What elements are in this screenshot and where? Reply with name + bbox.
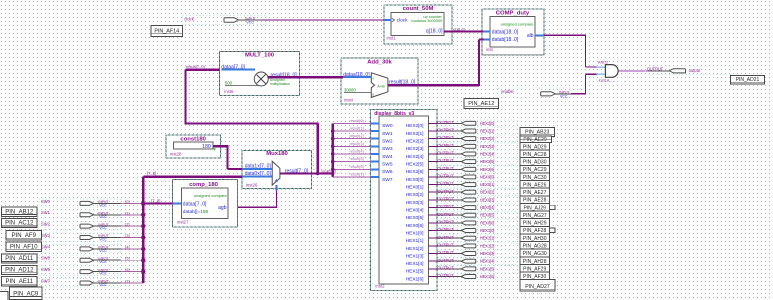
input pin SW4 bbox=[39, 244, 121, 253]
svg-text:VCC: VCC bbox=[99, 260, 107, 264]
svg-text:OUTPUT: OUTPUT bbox=[437, 158, 454, 163]
pin assignment PIN_AE12 bbox=[464, 99, 499, 109]
svg-text:result[5]: result[5] bbox=[350, 156, 364, 161]
svg-text:OUTPUT: OUTPUT bbox=[437, 273, 454, 278]
output pin HEX0[3] bbox=[428, 197, 517, 204]
svg-text:SW0: SW0 bbox=[41, 199, 51, 204]
pin assignment PIN_AF29 bbox=[520, 264, 550, 272]
svg-text:HEX2[6]: HEX2[6] bbox=[406, 169, 425, 175]
output pin HEX1[2] bbox=[428, 243, 517, 250]
svg-text:SW2: SW2 bbox=[382, 139, 393, 145]
pin assignment PIN_AC30 bbox=[520, 173, 550, 181]
wire SW bus to Mux180 data0x bbox=[143, 171, 242, 177]
junction dot SW4 bbox=[141, 247, 145, 251]
wire SW0 net bbox=[94, 200, 144, 204]
pin assignment PIN_AC9 bbox=[10, 287, 43, 300]
svg-text:inst2: inst2 bbox=[375, 284, 385, 289]
block count_50M (up counter) bbox=[384, 5, 452, 44]
input pin SW3 bbox=[39, 233, 121, 242]
svg-text:PIN_AH30: PIN_AH30 bbox=[523, 236, 547, 242]
svg-text:PIN_AD30: PIN_AD30 bbox=[523, 160, 547, 166]
wire result bus to display block bbox=[332, 123, 334, 177]
svg-text:SW5: SW5 bbox=[382, 162, 393, 168]
pin assignment PIN_AF10 bbox=[6, 242, 42, 251]
svg-text:count_50M: count_50M bbox=[403, 6, 434, 12]
svg-text:AND2: AND2 bbox=[598, 60, 608, 65]
wire result[1] tap to display SW1 bbox=[333, 126, 379, 131]
svg-text:HEX0[6]: HEX0[6] bbox=[406, 223, 425, 229]
svg-text:MULT_100: MULT_100 bbox=[245, 52, 275, 58]
svg-text:VCC: VCC bbox=[99, 283, 107, 287]
wire SW4 net bbox=[94, 245, 144, 249]
svg-text:result[0]: result[0] bbox=[350, 118, 364, 123]
junction dot result[3] bbox=[331, 145, 335, 149]
block const180 (constant 180) bbox=[166, 135, 221, 158]
svg-text:SW4: SW4 bbox=[382, 154, 393, 160]
svg-text:HEX1[2]: HEX1[2] bbox=[480, 243, 495, 248]
svg-text:HEX0[3]: HEX0[3] bbox=[480, 197, 495, 202]
svg-text:OUTPUT: OUTPUT bbox=[647, 66, 664, 71]
wire Mux180 result bus bbox=[280, 169, 336, 173]
input pin clock bbox=[183, 16, 267, 25]
wire SW5 net bbox=[94, 257, 144, 261]
svg-text:HEX2[3]: HEX2[3] bbox=[480, 144, 495, 149]
svg-text:VCC: VCC bbox=[560, 94, 568, 98]
pin assignment PIN_AE29 bbox=[520, 136, 552, 143]
svg-text:PIN_AF10: PIN_AF10 bbox=[10, 244, 38, 250]
junction dot result[6] bbox=[331, 168, 335, 172]
svg-text:HEX1[6]: HEX1[6] bbox=[406, 276, 425, 282]
junction dot SW0 bbox=[141, 201, 145, 205]
junction dot mux result/feedback bbox=[316, 172, 319, 175]
svg-text:enable: enable bbox=[501, 89, 514, 94]
svg-text:inst14: inst14 bbox=[599, 77, 610, 82]
svg-text:COMP_duty: COMP_duty bbox=[496, 10, 530, 16]
svg-text:HEX2[2]: HEX2[2] bbox=[406, 139, 425, 145]
svg-text:inst28: inst28 bbox=[170, 152, 182, 157]
svg-text:HEX0[2]: HEX0[2] bbox=[406, 192, 425, 198]
svg-text:alb: alb bbox=[527, 33, 534, 39]
svg-text:PIN_AC9: PIN_AC9 bbox=[13, 291, 39, 297]
junction dot SW2 bbox=[141, 224, 145, 228]
svg-text:SW0: SW0 bbox=[382, 123, 393, 129]
pin assignment PIN_AE11 bbox=[2, 277, 38, 286]
svg-text:HEX1[4]: HEX1[4] bbox=[406, 261, 425, 267]
svg-text:HEX2[1]: HEX2[1] bbox=[406, 131, 425, 137]
svg-text:inst27: inst27 bbox=[177, 220, 189, 225]
junction dot result[1] bbox=[331, 129, 335, 133]
input pin SW1 bbox=[39, 210, 121, 219]
svg-text:B: B bbox=[372, 92, 374, 96]
svg-text:PIN_AF14: PIN_AF14 bbox=[154, 29, 179, 35]
output pin HEX2[5] bbox=[428, 158, 517, 165]
output pin HEX1[3] bbox=[428, 250, 517, 257]
svg-text:VCC: VCC bbox=[99, 226, 107, 230]
svg-text:SW7: SW7 bbox=[41, 278, 51, 283]
output pin HEX1[5] bbox=[428, 265, 517, 272]
svg-text:OUTPUT: OUTPUT bbox=[437, 189, 454, 194]
block comp_180 (unsigned compare to 180) bbox=[172, 180, 237, 227]
wire result[4] tap to display SW4 bbox=[333, 149, 379, 154]
svg-text:PIN_AC30: PIN_AC30 bbox=[523, 175, 547, 181]
svg-text:PIN_AB12: PIN_AB12 bbox=[5, 209, 34, 215]
output pin HEX0[2] bbox=[428, 189, 517, 196]
svg-text:[5]: [5] bbox=[125, 257, 129, 261]
svg-text:clock: clock bbox=[397, 18, 408, 23]
svg-text:HEX0[5]: HEX0[5] bbox=[480, 213, 495, 218]
svg-text:HEX2[6]: HEX2[6] bbox=[480, 167, 495, 172]
svg-text:OUTPUT: OUTPUT bbox=[437, 143, 454, 148]
block Add_30k (adder A+B) bbox=[341, 58, 418, 104]
svg-text:SW2: SW2 bbox=[41, 222, 51, 227]
wire enable to AND gate input b bbox=[555, 74, 596, 94]
svg-text:result[7]: result[7] bbox=[350, 172, 364, 177]
junction dot SW5 bbox=[141, 258, 145, 262]
wire AND output net bbox=[618, 70, 669, 72]
svg-text:A: A bbox=[372, 77, 374, 81]
svg-text:OUTPUT: OUTPUT bbox=[437, 151, 454, 156]
output pin HEX0[6] bbox=[428, 220, 517, 227]
input pin enable bbox=[498, 88, 571, 98]
pin assignment PIN_AH30 bbox=[520, 234, 550, 242]
wire result[0] tap to display SW0 bbox=[333, 118, 379, 123]
svg-text:HEX1[4]: HEX1[4] bbox=[480, 259, 495, 264]
pin assignment PIN_AF30 bbox=[520, 272, 550, 280]
svg-text:[0]: [0] bbox=[125, 200, 129, 204]
svg-text:HEX1[0]: HEX1[0] bbox=[406, 230, 425, 236]
svg-text:inst6: inst6 bbox=[224, 89, 234, 94]
junction dot SW1 bbox=[141, 213, 145, 217]
pin assignment PIN_AC12 bbox=[2, 218, 38, 227]
svg-text:HEX0[0]: HEX0[0] bbox=[480, 174, 495, 179]
svg-text:OUTPUT: OUTPUT bbox=[437, 174, 454, 179]
svg-text:PIN_AH28: PIN_AH28 bbox=[523, 259, 547, 265]
svg-text:HEX2[1]: HEX2[1] bbox=[480, 129, 495, 134]
pin assignment PIN_AF9 bbox=[6, 231, 42, 240]
svg-text:A+B: A+B bbox=[377, 85, 385, 89]
input pin SW0 bbox=[39, 199, 121, 208]
wire SW7 net bbox=[94, 280, 144, 284]
svg-text:Mux180: Mux180 bbox=[266, 151, 288, 157]
junction dot result[2] bbox=[331, 137, 335, 141]
block Mux180 (2-to-1 mux) bbox=[242, 151, 311, 189]
svg-text:SW3: SW3 bbox=[382, 146, 393, 152]
pin assignment PIN_AF28 bbox=[520, 226, 555, 234]
wire result[2] tap to display SW2 bbox=[333, 133, 379, 138]
wire const180 to Mux180 data1x bbox=[213, 145, 272, 169]
svg-text:PIN_AD21: PIN_AD21 bbox=[736, 77, 760, 83]
svg-text:inst26: inst26 bbox=[246, 182, 258, 187]
svg-text:PIN_AD27: PIN_AD27 bbox=[525, 284, 550, 290]
svg-text:OUTPUT: OUTPUT bbox=[437, 197, 454, 202]
svg-text:result[4]: result[4] bbox=[350, 149, 364, 154]
output pin HEX2[3] bbox=[428, 143, 517, 150]
wire result[5] tap to display SW5 bbox=[333, 156, 379, 161]
svg-text:q[18..0]: q[18..0] bbox=[426, 29, 443, 35]
svg-text:HEX0[6]: HEX0[6] bbox=[480, 220, 495, 225]
svg-text:HEX0[0]: HEX0[0] bbox=[406, 177, 425, 183]
pin assignment PIN_AD12 bbox=[2, 265, 38, 274]
output pin HEX2[0] bbox=[428, 120, 517, 127]
svg-text:SW6: SW6 bbox=[41, 267, 51, 272]
svg-text:OUTPUT: OUTPUT bbox=[437, 204, 454, 209]
svg-text:HEX1[5]: HEX1[5] bbox=[480, 266, 495, 271]
block display_8bits_v3 (7-seg decoder) bbox=[371, 110, 438, 291]
svg-text:HEX1[6]: HEX1[6] bbox=[480, 274, 495, 279]
wire result[6] tap to display SW6 bbox=[333, 164, 379, 169]
wire Mux180 sel from comp_180 agb bbox=[228, 185, 277, 207]
svg-text:result[2]: result[2] bbox=[350, 133, 364, 138]
svg-text:result[7..0]: result[7..0] bbox=[186, 64, 205, 69]
pin assignment PIN_AH28 bbox=[520, 257, 550, 265]
svg-text:modulus 1000000: modulus 1000000 bbox=[411, 18, 443, 23]
svg-text:PIN_AF9: PIN_AF9 bbox=[12, 233, 37, 239]
svg-text:HEX2[5]: HEX2[5] bbox=[480, 159, 495, 164]
junction dot SW3 bbox=[141, 235, 145, 239]
svg-text:HEX1[0]: HEX1[0] bbox=[480, 228, 495, 233]
svg-text:PIN_AG28: PIN_AG28 bbox=[523, 243, 547, 249]
svg-text:OUTPUT: OUTPUT bbox=[437, 181, 454, 186]
svg-text:unsigned compare: unsigned compare bbox=[501, 21, 535, 26]
svg-text:PIN_AD12: PIN_AD12 bbox=[5, 268, 34, 274]
svg-text:PIN_AF29: PIN_AF29 bbox=[523, 266, 546, 272]
svg-text:PIN_AD29: PIN_AD29 bbox=[523, 144, 547, 150]
pin assignment PIN_AF14 bbox=[151, 26, 183, 37]
svg-text:PIN_AE11: PIN_AE11 bbox=[5, 279, 33, 285]
svg-text:OUTPUT: OUTPUT bbox=[437, 166, 454, 171]
output pin HEX0[5] bbox=[428, 212, 517, 219]
pin assignment PIN_AJ29 bbox=[520, 203, 555, 211]
svg-text:PIN_AE12: PIN_AE12 bbox=[468, 101, 494, 107]
junction dot result[5] bbox=[331, 160, 335, 164]
svg-text:dataa[18..0]: dataa[18..0] bbox=[492, 29, 519, 35]
svg-text:VCC: VCC bbox=[99, 238, 107, 242]
svg-text:output: output bbox=[689, 68, 701, 73]
svg-text:[7..0]: [7..0] bbox=[147, 171, 156, 176]
pin assignment PIN_AD21 bbox=[731, 75, 765, 84]
svg-text:SW3: SW3 bbox=[41, 233, 51, 238]
svg-text:HEX2[2]: HEX2[2] bbox=[480, 136, 495, 141]
svg-text:500: 500 bbox=[225, 80, 233, 85]
svg-text:[6]: [6] bbox=[125, 268, 129, 272]
svg-text:30000: 30000 bbox=[344, 88, 356, 93]
wire result[3] tap to display SW3 bbox=[333, 141, 379, 146]
svg-text:result[1]: result[1] bbox=[350, 126, 364, 131]
svg-text:result[3]: result[3] bbox=[350, 141, 364, 146]
svg-text:OUTPUT: OUTPUT bbox=[437, 265, 454, 270]
svg-text:OUTPUT: OUTPUT bbox=[437, 220, 454, 225]
svg-text:OUTPUT: OUTPUT bbox=[437, 235, 454, 240]
svg-text:OUTPUT: OUTPUT bbox=[437, 135, 454, 140]
wire SW6 net bbox=[94, 268, 144, 272]
svg-text:result[6]: result[6] bbox=[350, 164, 364, 169]
pin assignment PIN_AD27 bbox=[520, 280, 555, 291]
svg-text:HEX1[3]: HEX1[3] bbox=[480, 251, 495, 256]
svg-text:HEX2[4]: HEX2[4] bbox=[480, 151, 495, 156]
wire SW3 net bbox=[94, 234, 144, 238]
pin assignment PIN_AC28 bbox=[520, 150, 550, 158]
svg-text:HEX1[2]: HEX1[2] bbox=[406, 246, 425, 252]
svg-text:PIN_AE28: PIN_AE28 bbox=[523, 198, 547, 204]
svg-text:VCC: VCC bbox=[99, 249, 107, 253]
pin assignment PIN_AD29 bbox=[520, 142, 550, 150]
output pin HEX2[1] bbox=[428, 128, 517, 135]
svg-text:inst: inst bbox=[486, 47, 493, 52]
wire SW bus vertical bbox=[142, 177, 144, 283]
svg-text:HEX1[3]: HEX1[3] bbox=[406, 253, 425, 259]
svg-text:OUTPUT: OUTPUT bbox=[437, 212, 454, 217]
wire Add_30k result to COMP_duty datab bbox=[388, 39, 490, 86]
junction dot result bus bbox=[331, 172, 334, 175]
svg-text:PIN_AC28: PIN_AC28 bbox=[523, 152, 547, 158]
svg-text:[2]: [2] bbox=[125, 223, 129, 227]
output pin HEX2[6] bbox=[428, 166, 517, 173]
wire SW2 net bbox=[94, 223, 144, 227]
svg-text:PIN_AG27: PIN_AG27 bbox=[523, 213, 547, 219]
output pin HEX2[4] bbox=[428, 151, 517, 158]
wire SW bus to comp_180 dataa bbox=[143, 199, 181, 204]
svg-text:HEX2[4]: HEX2[4] bbox=[406, 154, 425, 160]
block MULT_100 (unsigned multiplier) bbox=[219, 51, 299, 95]
pin assignment PIN_AB12 bbox=[2, 207, 38, 216]
svg-text:clock: clock bbox=[184, 17, 194, 22]
output pin "output" bbox=[646, 66, 731, 74]
svg-text:HEX1[5]: HEX1[5] bbox=[406, 269, 425, 275]
svg-text:SW4: SW4 bbox=[41, 244, 51, 249]
svg-text:VCC: VCC bbox=[99, 272, 107, 276]
svg-text:SW1: SW1 bbox=[41, 210, 51, 215]
input pin SW7 bbox=[39, 278, 121, 287]
AND gate AND2 inst14 bbox=[597, 60, 628, 83]
svg-text:PIN_AF30: PIN_AF30 bbox=[523, 274, 546, 280]
pin assignment PIN_AE28 bbox=[520, 196, 550, 204]
output pin HEX0[4] bbox=[428, 204, 517, 211]
svg-text:OUTPUT: OUTPUT bbox=[437, 128, 454, 133]
output pin HEX1[1] bbox=[428, 235, 517, 242]
svg-text:agb: agb bbox=[218, 205, 227, 211]
svg-text:q[18..0]: q[18..0] bbox=[454, 27, 465, 31]
block COMP_duty (unsigned compare) bbox=[482, 9, 544, 55]
svg-text:HEX0[4]: HEX0[4] bbox=[480, 205, 495, 210]
svg-text:SW7: SW7 bbox=[382, 177, 393, 183]
svg-text:[1]: [1] bbox=[125, 211, 129, 215]
wire clock net bbox=[239, 19, 392, 21]
svg-text:HEX1[1]: HEX1[1] bbox=[480, 236, 495, 241]
svg-text:VCC: VCC bbox=[99, 203, 107, 207]
wire COMP_duty alb to AND gate input a bbox=[535, 35, 597, 67]
svg-text:OUTPUT: OUTPUT bbox=[437, 250, 454, 255]
svg-text:PIN_AF28: PIN_AF28 bbox=[523, 228, 546, 234]
output pin HEX1[4] bbox=[428, 258, 517, 265]
wire MULT result to Add_30k dataa bbox=[268, 76, 371, 78]
output pin HEX2[2] bbox=[428, 135, 517, 142]
svg-text:datab[]=180: datab[]=180 bbox=[183, 209, 209, 215]
output pin HEX0[0] bbox=[428, 174, 517, 181]
svg-text:PIN_AC29: PIN_AC29 bbox=[523, 167, 547, 173]
svg-text:PIN_AJ29: PIN_AJ29 bbox=[523, 205, 546, 211]
svg-text:HEX0[5]: HEX0[5] bbox=[406, 215, 425, 221]
svg-text:dataa[7..0]: dataa[7..0] bbox=[183, 201, 207, 207]
output pin HEX1[0] bbox=[428, 227, 517, 234]
svg-text:SW6: SW6 bbox=[382, 169, 393, 175]
svg-text:inst4: inst4 bbox=[344, 98, 354, 103]
svg-text:PIN_AE26: PIN_AE26 bbox=[523, 182, 547, 188]
wire result[7] tap to display SW7 bbox=[333, 172, 379, 177]
junction dot SW6 bbox=[141, 269, 145, 273]
svg-text:const180: const180 bbox=[180, 136, 206, 142]
wire feedback to MULT_100 dataa bbox=[186, 64, 319, 173]
svg-text:PIN_AE27: PIN_AE27 bbox=[523, 190, 547, 196]
svg-text:HEX0[4]: HEX0[4] bbox=[406, 207, 425, 213]
svg-text:180: 180 bbox=[202, 144, 211, 150]
svg-text:[4]: [4] bbox=[125, 245, 129, 249]
svg-text:PIN_AG30: PIN_AG30 bbox=[523, 251, 547, 257]
output pin HEX0[1] bbox=[428, 181, 517, 188]
wire q[18..0] bbox=[444, 27, 490, 31]
output pin HEX1[6] bbox=[428, 273, 517, 280]
input pin SW5 bbox=[39, 256, 121, 265]
svg-text:comp_180: comp_180 bbox=[189, 182, 219, 188]
svg-text:[7..0]: [7..0] bbox=[151, 199, 160, 204]
svg-text:unsigned compare: unsigned compare bbox=[194, 193, 228, 198]
svg-text:datab[18..0]: datab[18..0] bbox=[492, 37, 519, 43]
pin assignment PIN_AD30 bbox=[520, 158, 550, 166]
svg-text:SW5: SW5 bbox=[41, 256, 51, 261]
svg-text:Add_30k: Add_30k bbox=[367, 60, 392, 66]
svg-text:PIN_AC12: PIN_AC12 bbox=[5, 221, 34, 227]
pin assignment PIN_AG28 bbox=[520, 242, 550, 250]
svg-text:HEX0[1]: HEX0[1] bbox=[406, 184, 425, 190]
svg-text:[7]: [7] bbox=[125, 280, 129, 284]
svg-text:VCC: VCC bbox=[99, 215, 107, 219]
svg-text:PIN_AB23: PIN_AB23 bbox=[525, 130, 549, 136]
svg-text:PIN_AH29: PIN_AH29 bbox=[523, 221, 547, 227]
svg-text:HEX2[0]: HEX2[0] bbox=[480, 121, 495, 126]
svg-text:HEX0[3]: HEX0[3] bbox=[406, 200, 425, 206]
svg-text:HEX0[1]: HEX0[1] bbox=[480, 182, 495, 187]
svg-text:inst1: inst1 bbox=[387, 36, 397, 41]
input pin SW2 bbox=[39, 222, 121, 231]
pin assignment PIN_AH29 bbox=[520, 219, 550, 227]
partial box bottom-left corner bbox=[0, 292, 8, 300]
svg-text:OUTPUT: OUTPUT bbox=[437, 227, 454, 232]
pin assignment PIN_AG30 bbox=[520, 249, 550, 257]
svg-text:OUTPUT: OUTPUT bbox=[437, 243, 454, 248]
svg-text:multiplication: multiplication bbox=[270, 82, 290, 86]
svg-text:OUTPUT: OUTPUT bbox=[437, 258, 454, 263]
pin assignment PIN_AE27 bbox=[520, 188, 550, 196]
svg-text:PIN_AD11: PIN_AD11 bbox=[5, 256, 34, 262]
svg-text:HEX1[1]: HEX1[1] bbox=[406, 238, 425, 244]
svg-text:SW1: SW1 bbox=[382, 131, 393, 137]
pin assignment PIN_AG27 bbox=[520, 211, 550, 219]
svg-text:HEX2[5]: HEX2[5] bbox=[406, 162, 425, 168]
junction dot result[4] bbox=[331, 152, 335, 156]
pin assignment PIN_AB23 bbox=[520, 127, 555, 136]
svg-text:HEX2[3]: HEX2[3] bbox=[406, 146, 425, 152]
pin assignment PIN_AC29 bbox=[520, 165, 550, 173]
wire SW1 net bbox=[94, 211, 144, 215]
svg-text:OUTPUT: OUTPUT bbox=[437, 120, 454, 125]
svg-text:[3]: [3] bbox=[125, 234, 129, 238]
svg-text:HEX2[0]: HEX2[0] bbox=[406, 123, 425, 129]
input pin SW6 bbox=[39, 267, 121, 276]
svg-text:VCC: VCC bbox=[246, 21, 254, 25]
pin assignment PIN_AE26 bbox=[520, 181, 550, 189]
svg-text:HEX0[2]: HEX0[2] bbox=[480, 190, 495, 195]
pin assignment PIN_AD11 bbox=[2, 254, 38, 263]
